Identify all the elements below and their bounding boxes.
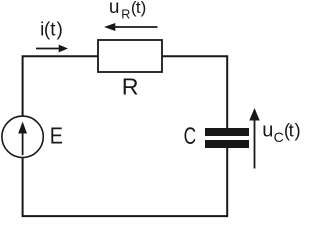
voltage arrow uC(t) [249, 108, 259, 169]
wire top-left segment with left vertical drop [23, 56, 98, 116]
svg-text:C: C [184, 123, 197, 150]
capacitor C bottom plate [205, 140, 249, 148]
wire bottom U segment [23, 148, 228, 216]
svg-text:R: R [122, 73, 139, 99]
voltage arrow uR(t) [104, 23, 158, 31]
source E circle [2, 116, 43, 157]
resistor R [98, 40, 162, 72]
svg-text:i(t): i(t) [40, 20, 63, 41]
wire top-right segment with right vertical drop [162, 56, 227, 128]
current arrow i(t) [36, 45, 68, 53]
capacitor C top plate [205, 128, 249, 136]
svg-text:E: E [50, 123, 63, 149]
source E internal arrow [18, 122, 27, 156]
